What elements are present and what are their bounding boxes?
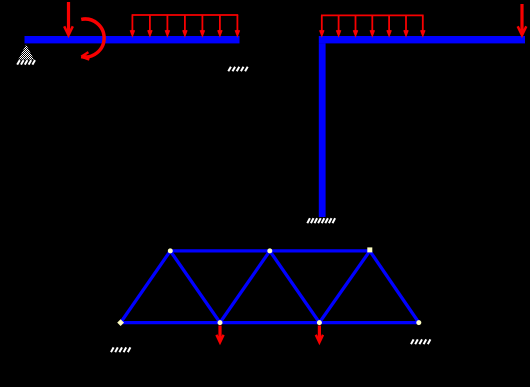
truss load arrow P1 at node B1 [216,326,223,343]
truss node TM [267,248,272,253]
column of frame (vertical member) [319,43,326,217]
truss diagonal TR-BR [370,251,419,323]
hatching under pin support A [17,60,35,65]
truss node B2 [317,320,322,325]
point load arrow F1 on beam B1 [64,2,73,35]
distributed load q2 arrows (7) [320,15,425,35]
moment arrow M1 (clockwise arc) on beam B1 [81,19,104,60]
truss top chord [170,249,369,252]
truss load arrow P2 at node B2 [316,326,323,343]
truss left support hatching [111,347,130,352]
pin support A (dithered triangle under left end of beam B1) [18,45,34,60]
truss right support hatching [411,339,430,344]
truss diagonal BL-TL [121,251,171,323]
truss node B1 [218,320,223,325]
truss node TL [168,248,173,253]
truss bottom chord [121,321,419,324]
truss diagonal TL-B1 [170,251,220,323]
point load arrow F2 at right end of beam B2 [518,4,527,35]
truss node BL [117,319,124,326]
truss diagonal B1-TM [220,251,270,323]
truss diagonal TM-B2 [270,251,320,323]
distributed load q1 top line [132,14,239,16]
beam B2 (top-right horizontal beam of frame) [319,36,525,43]
beam B1 (top-left horizontal beam) [25,36,240,43]
roller support hatching under right end of beam B1 [228,67,247,72]
truss diagonal B2-TR [319,251,369,323]
truss node TR [367,247,372,252]
distributed load q1 arrows (7) [131,15,240,35]
distributed load q2 top line [321,14,424,16]
fixed support hatching at column base [307,218,335,223]
truss node BR [416,320,421,325]
